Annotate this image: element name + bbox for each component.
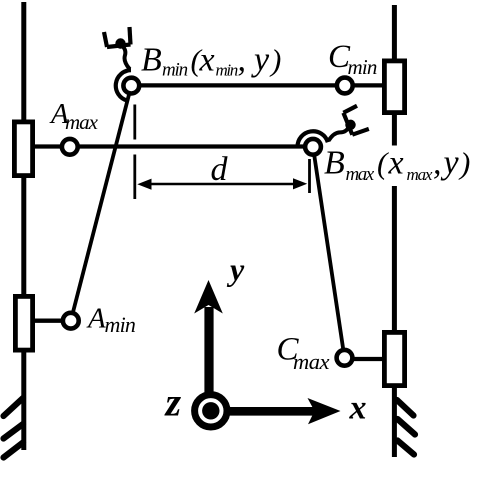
y axis arrowhead	[194, 280, 223, 314]
dimension d line	[148, 183, 296, 186]
witness line below B_max	[308, 159, 311, 193]
svg-text:y: y	[251, 41, 270, 78]
white gap on right rail behind B_max label	[388, 148, 401, 185]
ground hatching left	[4, 398, 24, 458]
svg-text:x: x	[388, 145, 404, 182]
svg-text:max: max	[346, 164, 375, 185]
gripper at B_min	[104, 27, 131, 101]
joint B_min	[123, 78, 139, 94]
dimension arrowhead left	[137, 179, 151, 190]
right rail lower segment	[392, 186, 397, 457]
slider A_max	[14, 122, 32, 176]
link B_min to C_min	[135, 83, 382, 87]
y axis shaft	[204, 307, 213, 413]
right rail upper segment	[392, 5, 397, 146]
gripper at B_max	[291, 104, 369, 150]
svg-text:z: z	[164, 380, 182, 425]
link C_max to slider	[345, 357, 382, 361]
joint C_max	[337, 350, 353, 366]
witness line below B_min (lower segment)	[133, 155, 136, 200]
svg-text:max: max	[407, 165, 433, 184]
svg-text:y: y	[441, 145, 460, 182]
svg-text:min: min	[348, 55, 377, 79]
bar B_max C_max	[313, 147, 345, 358]
joint A_max	[62, 139, 78, 155]
link A_min to slider	[35, 319, 70, 323]
joint C_min	[337, 78, 353, 94]
dimension arrowhead right	[293, 178, 307, 189]
svg-text:B: B	[324, 145, 345, 182]
svg-text:d: d	[211, 151, 229, 188]
svg-text:max: max	[65, 110, 99, 134]
svg-text:min: min	[162, 60, 188, 81]
origin ring (z axis out of page)	[195, 395, 227, 427]
joint B_max	[305, 139, 321, 155]
svg-text:A: A	[86, 303, 106, 335]
slider A_min	[15, 296, 32, 350]
svg-text:max: max	[293, 349, 329, 374]
x axis arrowhead	[308, 398, 341, 424]
svg-text:(: (	[377, 146, 389, 181]
svg-text:,: ,	[238, 41, 247, 78]
joint A_min	[63, 313, 79, 329]
left rail	[21, 2, 26, 450]
origin dot	[202, 402, 219, 419]
ground hatching right	[397, 400, 415, 455]
svg-text:min: min	[105, 312, 136, 337]
svg-text:): )	[269, 42, 281, 77]
witness line below B_min (upper segment)	[133, 105, 136, 140]
svg-text:min: min	[216, 61, 238, 80]
bar A_min B_min	[71, 86, 132, 321]
slider C_min	[384, 61, 404, 113]
svg-text:): )	[458, 146, 470, 181]
x axis shaft	[208, 407, 315, 416]
slider C_max	[384, 332, 404, 385]
svg-text:B: B	[141, 41, 162, 78]
svg-text:x: x	[349, 389, 367, 426]
svg-text:,: ,	[433, 145, 442, 182]
link A_max to B_max	[35, 144, 304, 148]
svg-text:x: x	[199, 41, 215, 78]
